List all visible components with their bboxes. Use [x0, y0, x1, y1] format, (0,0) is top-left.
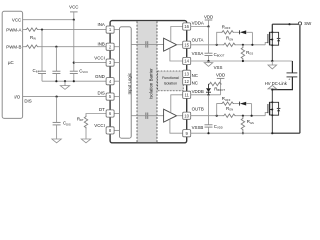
svg-text:SW: SW: [304, 21, 312, 26]
svg-text:16: 16: [184, 24, 189, 29]
ground below C_DIS: [52, 139, 61, 143]
VCC rail symbol: [69, 5, 78, 20]
svg-text:VDD: VDD: [216, 73, 225, 78]
svg-text:µC: µC: [8, 60, 14, 65]
capacitor C_IN1: [33, 30, 46, 82]
pin 5 DIS: [97, 91, 114, 101]
resistor R_OFF (B): [221, 96, 234, 105]
wire VSSA: [190, 60, 292, 62]
node Q1 source-diode: [271, 44, 273, 46]
node VDDA junction: [207, 25, 209, 27]
pin 8 VCCI: [94, 123, 114, 134]
svg-text:+: +: [288, 77, 290, 81]
wire GND bus: [42, 80, 106, 82]
functional isolation dashed box: [158, 71, 184, 91]
node R_GS B top: [242, 115, 244, 117]
node OUTB branch junction: [216, 115, 218, 117]
svg-text:13: 13: [184, 71, 189, 76]
pin 16 VDDA: [183, 20, 204, 30]
isolation capacitor channel B: [146, 113, 148, 119]
node VCCI junction: [73, 62, 75, 64]
wire gate B jog: [265, 113, 268, 116]
svg-text:PWM-A: PWM-A: [6, 27, 21, 32]
node VCC junction: [73, 19, 75, 21]
svg-text:VCCI: VCCI: [94, 56, 105, 61]
node gnd stem junction: [64, 80, 66, 82]
resistor R_IN (PWM-A): [25, 28, 39, 41]
capacitor C_BOOT: [205, 27, 225, 62]
transistor Q1 (high side): [268, 24, 272, 61]
op-amp buffer B: [164, 109, 177, 122]
diode D_BOOT: [206, 84, 211, 95]
node Q2 drain-diode: [271, 101, 273, 103]
resistor R_OFF (A): [221, 24, 234, 34]
wire PWM-B: [23, 46, 25, 48]
wire R_OFF to diode: [234, 31, 240, 33]
node OUTA branch junction: [216, 44, 218, 46]
pin 14 VSSA: [183, 51, 204, 65]
node branch A rejoin: [251, 44, 253, 46]
isolation capacitor channel A: [146, 41, 148, 47]
node Q1 body: [271, 39, 273, 41]
pin 4 GND: [95, 74, 114, 85]
pin 9 VSSB: [183, 125, 204, 137]
node Q1 source / VSSA: [271, 60, 273, 62]
svg-text:I/O: I/O: [14, 94, 20, 99]
resistor R_GS (B): [241, 116, 254, 133]
wire VDDB rail: [216, 73, 225, 95]
pin 10 OUTB: [183, 107, 204, 120]
pin 1 INA: [97, 22, 114, 33]
pin 11 VDDB: [183, 89, 204, 98]
svg-text:VCC: VCC: [12, 17, 21, 22]
wire VCC from uC: [23, 19, 74, 21]
svg-text:DIS: DIS: [24, 99, 31, 104]
wire SW bus down: [299, 26, 301, 134]
wire PWM-B to INB: [39, 46, 107, 48]
body diode Q1: [272, 32, 280, 45]
svg-text:PWM-B: PWM-B: [6, 44, 21, 49]
node Q2 drain: [271, 89, 273, 91]
wire R_OFF B to diode: [234, 103, 240, 105]
node DIS / C_DIS junction: [56, 96, 58, 98]
wire DT from pin6: [86, 114, 106, 116]
wire branch B down: [251, 104, 253, 116]
svg-text:VDD: VDD: [204, 14, 213, 19]
microcontroller uC box: [2, 11, 22, 118]
node Q2 source-diode: [271, 114, 273, 116]
wire R_DT to ground: [85, 127, 87, 139]
wire VDDA internal: [171, 27, 183, 42]
VSS arrow symbol: [204, 61, 222, 70]
capacitor C_VDD: [205, 95, 223, 133]
pin 6 DT: [99, 107, 114, 117]
svg-text:Functional: Functional: [162, 76, 179, 80]
SW arrow above Q2 drain: [268, 85, 277, 89]
input logic block: [120, 27, 132, 138]
resistor R_GS (A): [241, 45, 253, 61]
svg-text:VSSA: VSSA: [192, 51, 204, 56]
diode D_B: [240, 102, 252, 106]
svg-text:Isolation Barrier: Isolation Barrier: [149, 68, 154, 99]
wire buffer B out to pin 10: [177, 115, 183, 117]
diode D_A: [240, 30, 253, 34]
svg-text:OUTA: OUTA: [192, 38, 204, 43]
wire OUTA: [190, 44, 222, 46]
capacitor C_VCC: [70, 63, 88, 82]
svg-text:VCCI: VCCI: [94, 123, 105, 128]
pin 2 INB: [97, 42, 114, 51]
resistor R_BOOT: [209, 82, 226, 92]
left pin stubs to input logic: [114, 30, 120, 131]
wire PWM-A: [23, 29, 25, 31]
svg-text:DT: DT: [99, 107, 105, 112]
wire gate A jog: [265, 43, 268, 45]
svg-text:14: 14: [184, 59, 189, 64]
svg-text:INB: INB: [97, 42, 104, 47]
wire PWM-A to INA: [39, 29, 107, 31]
svg-text:VDDA: VDDA: [192, 20, 204, 25]
wire branch A down: [251, 32, 253, 45]
wire VSSB thick right: [272, 132, 300, 134]
node VSSA / C_BOOT junction: [207, 60, 209, 62]
gate driver IC U1 body: [110, 21, 187, 143]
svg-text:12: 12: [184, 79, 189, 84]
node D_BOOT / VDDB: [207, 94, 209, 96]
node R_GS B bottom: [242, 132, 244, 134]
svg-text:OUTB: OUTB: [192, 107, 204, 112]
wire branch A up: [217, 32, 221, 45]
pin 15 OUTA: [183, 38, 204, 49]
pin 12 NC: [183, 78, 198, 86]
node PWM-A / C_IN1 junction: [41, 29, 43, 31]
resistor R_DT: [77, 116, 88, 129]
svg-text:VDDB: VDDB: [192, 89, 204, 94]
pin 13 NC: [183, 70, 198, 78]
node R_GS A top: [242, 44, 244, 46]
svg-text:HV DC-Link: HV DC-Link: [265, 81, 288, 86]
wire VSSB internal: [170, 119, 183, 133]
ground below R_DT: [81, 139, 90, 143]
ground GND1: [60, 81, 69, 89]
node C_VDD / VSSB: [207, 132, 209, 134]
resistor R_ON (B): [223, 106, 237, 117]
svg-text:NC: NC: [192, 80, 198, 85]
node C_VCC gnd junction: [73, 80, 75, 82]
svg-text:VSSB: VSSB: [192, 125, 204, 130]
body diode Q2: [272, 102, 280, 115]
capacitor C_IN2: [52, 47, 60, 81]
svg-text:GND: GND: [95, 74, 105, 79]
resistor R_ON (A): [223, 36, 237, 47]
wire R_ON B out: [236, 115, 265, 117]
wire VCC down to VCCI row: [73, 20, 75, 63]
wire VSSA internal: [170, 48, 183, 61]
transistor Q2 (low side): [268, 90, 272, 134]
svg-text:10: 10: [184, 113, 189, 118]
svg-text:DIS: DIS: [97, 91, 104, 96]
wire VDDB: [190, 94, 220, 96]
op-amp buffer A: [164, 38, 177, 51]
wire channel A through barrier: [131, 43, 163, 45]
pin 3 VCCI: [94, 56, 114, 67]
wire buffer A out to pin 15: [177, 44, 183, 46]
resistor R_IN (PWM-B): [25, 45, 39, 48]
node PWM-B / C_IN2 junction: [55, 46, 57, 48]
svg-text:VCC: VCC: [69, 5, 78, 10]
wire branch B up: [217, 104, 221, 116]
wire SW top bus: [272, 23, 298, 25]
node Q2 body: [271, 109, 273, 111]
svg-text:11: 11: [184, 92, 189, 97]
SW arrow below Q1 source: [271, 61, 273, 65]
svg-text:VSS: VSS: [214, 65, 223, 70]
wire OUTB: [190, 115, 222, 117]
wire DIS from uC I/O: [23, 96, 107, 98]
node C_IN2 gnd junction: [55, 80, 57, 82]
node Q1 drain-diode: [271, 31, 273, 33]
node R_GS A bottom: [242, 60, 244, 62]
wire channel B through barrier: [131, 115, 163, 117]
node Q2 source / VSSB: [271, 132, 273, 134]
svg-text:Isolation: Isolation: [164, 81, 177, 85]
isolation barrier shaded band: [137, 21, 157, 142]
wire R_ON out: [236, 44, 265, 46]
capacitor C_DIS: [53, 97, 71, 139]
node HV link top: [288, 23, 290, 25]
capacitor HV DC-Link: [265, 73, 298, 90]
wire VSSA to HV link cap: [291, 61, 293, 73]
svg-text:15: 15: [184, 42, 189, 47]
wire VDDB internal: [171, 95, 183, 113]
node branch B rejoin: [251, 115, 253, 117]
wire VSSB: [190, 132, 272, 134]
svg-text:INA: INA: [97, 22, 104, 27]
svg-text:Input Logic: Input Logic: [127, 72, 132, 94]
terminal SW: [298, 22, 301, 25]
wire VDDA to rail: [190, 26, 208, 28]
svg-text:NC: NC: [192, 73, 198, 78]
wire VCCI to pin3: [74, 62, 107, 64]
VDD rail A: [204, 14, 213, 26]
